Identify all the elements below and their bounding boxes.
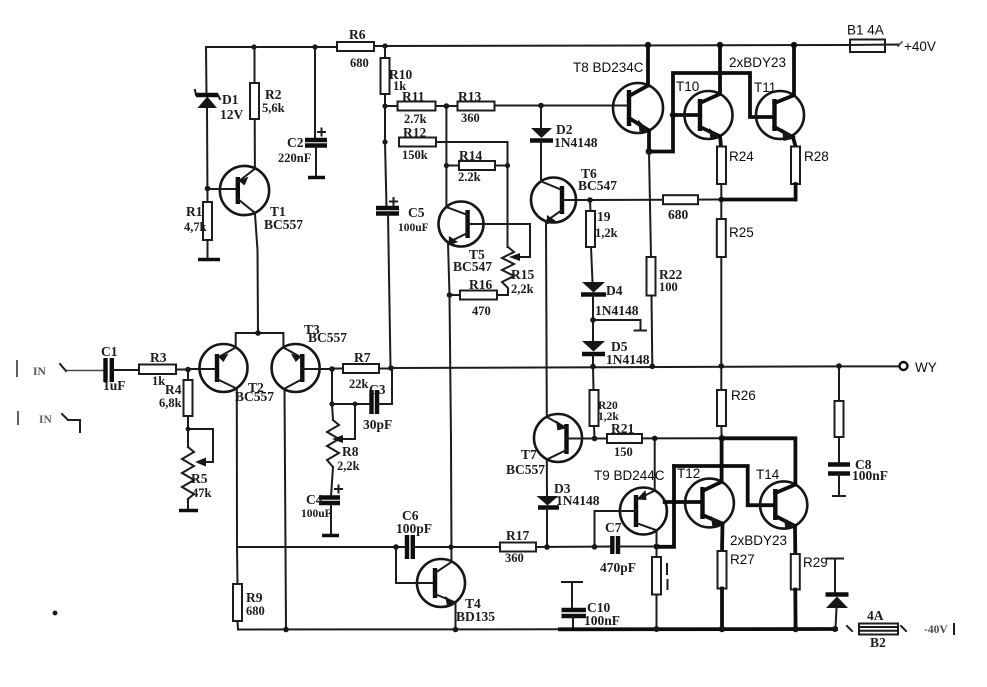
svg-text:1N4148: 1N4148 xyxy=(595,303,639,318)
wire +40V top rail right segment xyxy=(374,45,845,46)
svg-text:R28: R28 xyxy=(804,149,829,164)
node junction R11 left xyxy=(382,103,387,108)
wire R25 to output rail xyxy=(720,257,722,366)
node IN lower terminal tick xyxy=(17,412,19,424)
wire T3 collector down to bottom rail xyxy=(285,389,287,630)
wire R17 to C7 xyxy=(536,546,612,549)
wire base column down to output node xyxy=(657,466,675,547)
node junction D2 top xyxy=(538,103,544,109)
svg-text:C7: C7 xyxy=(605,520,622,535)
wire R24 to R25 xyxy=(720,184,722,219)
svg-text:R24: R24 xyxy=(729,149,754,164)
wire input to C1 xyxy=(66,370,105,372)
resistor R24 xyxy=(717,147,726,185)
transistor T12 2xBDY23 xyxy=(685,479,734,528)
svg-text:1,2k: 1,2k xyxy=(595,226,618,240)
transistor T7 BC557 xyxy=(506,414,582,477)
resistor R8 2,2k trimmer xyxy=(327,420,360,473)
wire lower horizontal line T2-collector to C6 xyxy=(237,546,407,548)
ground under C4 xyxy=(322,534,339,537)
wire T9 to T12 base link xyxy=(665,500,703,504)
node junction R3/R4/T2 xyxy=(185,367,191,373)
wire C2 to ground xyxy=(315,146,317,177)
svg-text:T11: T11 xyxy=(754,80,776,95)
node junction 680/R24/R25 xyxy=(718,197,724,203)
svg-text:BC547: BC547 xyxy=(453,259,492,274)
node junction D5/R20 on rail xyxy=(590,364,596,370)
node junction R14 left xyxy=(444,163,449,168)
node junction T1 base tap xyxy=(205,186,211,192)
wire node to R4 xyxy=(187,370,189,381)
wire T1 collector to diff pair tail xyxy=(255,213,258,333)
wire R12 right to R15 column xyxy=(436,142,508,247)
svg-text:B2: B2 xyxy=(870,635,886,650)
svg-text:BC557: BC557 xyxy=(235,389,274,404)
svg-text:R9: R9 xyxy=(246,590,263,605)
wire bottom rail right thick xyxy=(560,627,836,631)
resistor unlabeled above bottom rail xyxy=(652,547,668,629)
wire T4 emitter to bottom rail xyxy=(455,603,457,630)
resistor R28 xyxy=(791,147,800,185)
node junction R21/R26/T12/T14 xyxy=(719,435,725,441)
resistor R22 100 xyxy=(647,257,683,296)
svg-text:360: 360 xyxy=(505,551,524,565)
wire R13 to T8 base xyxy=(495,105,630,107)
node junction D3 bottom xyxy=(544,544,550,550)
transistor T8 BD234C xyxy=(613,83,663,133)
wire R5 wiper loop xyxy=(188,429,213,462)
node junction T9 collector/C7 line xyxy=(654,544,660,550)
svg-text:IN: IN xyxy=(33,366,46,378)
svg-text:470: 470 xyxy=(472,304,491,318)
svg-text:C5: C5 xyxy=(408,205,425,220)
svg-text:R25: R25 xyxy=(729,225,754,240)
svg-text:R17: R17 xyxy=(506,528,529,543)
transistor T6 BC547 xyxy=(531,166,617,225)
transistor T1 BC557 xyxy=(220,166,303,232)
wire T14 base path xyxy=(674,466,775,505)
resistor R5 47k trimmer xyxy=(182,447,212,500)
transistor T2 BC557 xyxy=(200,344,275,404)
node junction C3 left xyxy=(329,401,334,406)
svg-text:T7: T7 xyxy=(521,447,537,462)
node junction R29/bottom rail xyxy=(792,626,798,632)
wire C1 to R3 xyxy=(112,369,139,371)
svg-text:12V: 12V xyxy=(220,107,244,122)
wire C3 right lead up to R7 right node xyxy=(377,369,392,405)
transistor T14 2xBDY23 xyxy=(760,481,807,530)
wire T9 collector xyxy=(656,530,658,546)
svg-text:360: 360 xyxy=(461,111,480,125)
wire D5 to output rail xyxy=(592,355,594,367)
node junction T3 base/R7/C3 xyxy=(329,366,335,372)
node junction R22 bottom on rail xyxy=(650,364,656,370)
capacitor C6 100pF xyxy=(396,508,432,559)
svg-text:30pF: 30pF xyxy=(363,417,392,432)
svg-text:1uF: 1uF xyxy=(103,378,126,393)
svg-text:R16: R16 xyxy=(469,277,492,292)
node junction T9 emitter tap xyxy=(652,436,658,442)
resistor R10 1k xyxy=(381,58,413,94)
svg-text:R3: R3 xyxy=(150,350,167,365)
svg-text:R14: R14 xyxy=(459,148,482,163)
resistor R13 360 xyxy=(458,89,495,125)
svg-text:T12: T12 xyxy=(677,466,700,481)
wire R1 to ground xyxy=(207,240,209,259)
node junction T4 emitter/bottom rail xyxy=(453,627,459,633)
node junction T11 collector/rail xyxy=(791,42,797,48)
resistor R11 2.7k xyxy=(385,89,436,126)
capacitor C4 100uF xyxy=(301,486,342,521)
wire T5 emitter down to T4 collector xyxy=(448,243,452,563)
svg-text:WY: WY xyxy=(915,360,937,375)
wire bottom rail left xyxy=(238,628,560,630)
typed labels group xyxy=(573,23,937,571)
node junction C2/rail xyxy=(312,44,317,49)
node junction T9 base tap xyxy=(592,544,598,550)
wire R29 to bottom rail xyxy=(793,590,797,630)
node junction between D4 and D5 xyxy=(590,317,596,323)
wire C5 column top xyxy=(385,142,387,207)
wire T12 collector from node xyxy=(720,438,724,482)
node IN terminal tick xyxy=(16,361,18,376)
svg-text:680: 680 xyxy=(246,604,265,618)
wire R28 bottom link xyxy=(721,198,795,202)
resistor R6 xyxy=(337,27,374,70)
wire T14 emitter to R29 xyxy=(793,526,797,554)
node +40V tick xyxy=(898,42,902,46)
svg-text:R6: R6 xyxy=(349,27,366,42)
node junction R27/bottom rail xyxy=(719,626,725,632)
resistor R15 2,2k trimmer xyxy=(502,247,534,296)
node junction T8 collector/rail xyxy=(645,42,651,48)
wire T1 base xyxy=(208,188,238,190)
wire R5 to ground xyxy=(187,499,189,510)
wire R2 to T1 emitter xyxy=(254,119,256,169)
node junction R8 wiper tap xyxy=(353,402,358,407)
wire rail to R10 xyxy=(384,46,386,58)
node junction T4 collector line crossing xyxy=(448,544,453,549)
resistor 680 bias xyxy=(663,195,721,222)
svg-text:R2: R2 xyxy=(265,87,282,102)
node junction R10/rail xyxy=(382,43,387,48)
ground under R1 xyxy=(198,258,220,261)
capacitor C10 100nF xyxy=(562,582,621,630)
wire C3 left lead xyxy=(332,403,371,405)
svg-text:+40V: +40V xyxy=(904,39,936,54)
wire R22 column xyxy=(649,152,651,257)
capacitor C3 30pF xyxy=(363,382,392,432)
svg-text:C1: C1 xyxy=(101,344,118,359)
wire T6 base line through 680 xyxy=(590,199,663,201)
node junction R12 left xyxy=(382,139,387,144)
svg-text:470pF: 470pF xyxy=(600,560,636,575)
node junction C6/T4 base xyxy=(393,544,399,550)
svg-text:C3: C3 xyxy=(369,382,386,397)
node junction R14 right xyxy=(505,163,510,168)
node junction resistor/bottom rail xyxy=(654,626,660,632)
wire input jack tick xyxy=(60,364,66,371)
wire R19 to D4 xyxy=(591,247,593,282)
svg-text:BC557: BC557 xyxy=(308,330,347,345)
transistor T3 BC557 xyxy=(272,322,348,392)
wire C4 to ground xyxy=(330,504,332,536)
svg-text:B1 4A: B1 4A xyxy=(847,23,884,38)
transistor T4 BD135 xyxy=(417,559,495,624)
node junction C8 on rail xyxy=(836,363,842,369)
node bias stub end bar xyxy=(635,330,647,332)
wire +40V top rail left segment xyxy=(206,46,337,48)
transistor T9 BD244C xyxy=(620,488,667,535)
svg-text:6,8k: 6,8k xyxy=(159,396,182,410)
capacitor C2 220nF xyxy=(278,129,327,166)
svg-text:1k: 1k xyxy=(152,374,165,388)
wire T8 emitter to node xyxy=(647,131,651,153)
node junction T10 collector/rail xyxy=(717,42,723,48)
wire R21 right to output devices node xyxy=(642,437,722,439)
svg-text:D1: D1 xyxy=(222,92,239,107)
svg-text:T10: T10 xyxy=(676,79,699,94)
svg-text:2,2k: 2,2k xyxy=(337,459,360,473)
svg-text:2.2k: 2.2k xyxy=(458,170,481,184)
wire rail to R2 xyxy=(254,47,256,83)
wire T14 collector branch xyxy=(722,438,796,484)
svg-text:100nF: 100nF xyxy=(584,613,620,628)
svg-text:R21: R21 xyxy=(611,421,634,436)
wire R7 node down to C3 loop xyxy=(331,369,333,404)
capacitor C8 100nF xyxy=(828,457,888,496)
wire T7 base to R21 xyxy=(567,438,608,440)
svg-text:R7: R7 xyxy=(354,350,371,365)
diode protection at -40V xyxy=(826,559,849,630)
resistor R4 6,8k xyxy=(159,380,193,416)
transistor T11 2xBDY23 xyxy=(756,45,804,141)
wire R8 wiper connection xyxy=(343,404,355,439)
wire T2 collector down xyxy=(236,389,239,584)
svg-text:R15: R15 xyxy=(511,267,534,282)
wire T5 base hook to R15 wiper xyxy=(468,224,530,257)
capacitor C7 470pF xyxy=(600,520,636,575)
node -40V tick xyxy=(953,624,955,634)
diode D5 1N4148 xyxy=(582,339,650,367)
svg-text:BC547: BC547 xyxy=(578,178,617,193)
wire C7 right to T9 collector node xyxy=(618,546,674,548)
node junction R20 bottom/T7 base xyxy=(592,436,598,442)
ground under R5 xyxy=(179,509,198,512)
node junction R26 top on rail xyxy=(719,363,725,369)
svg-text:4,7k: 4,7k xyxy=(184,220,207,234)
wire R9 to bottom rail corner xyxy=(237,621,240,630)
svg-text:R11: R11 xyxy=(402,89,425,104)
wire D4 to D5 xyxy=(592,295,594,341)
svg-text:R26: R26 xyxy=(731,388,756,403)
node junction R19 top xyxy=(587,197,593,203)
fuse B1 4A xyxy=(845,40,898,53)
node junction R2/rail xyxy=(251,44,256,49)
node junction T12 base column xyxy=(671,499,677,505)
resistor R16 470 xyxy=(450,277,509,318)
svg-text:BC557: BC557 xyxy=(264,217,303,232)
svg-text:100uF: 100uF xyxy=(398,222,429,234)
transistor T5 BC547 xyxy=(439,202,493,275)
wire T6 base to bias network xyxy=(562,199,590,201)
wire T9 emitter tap xyxy=(654,438,656,490)
svg-text:R12: R12 xyxy=(403,125,426,140)
svg-text:R27: R27 xyxy=(730,552,755,567)
svg-text:R13: R13 xyxy=(458,89,481,104)
wire T2 base xyxy=(188,368,217,370)
resistor R21 150 xyxy=(607,421,642,459)
svg-text:R4: R4 xyxy=(165,382,182,397)
wire R3 to T2 base node xyxy=(176,369,188,371)
svg-text:150k: 150k xyxy=(402,148,428,162)
wire T10 base xyxy=(673,113,700,117)
wire driver node L-path to T10/T11 bases xyxy=(649,73,775,152)
wire R26 xyxy=(717,366,726,438)
resistor R19 1,2k xyxy=(586,200,618,247)
svg-text:C2: C2 xyxy=(287,135,304,150)
svg-text:1N4148: 1N4148 xyxy=(554,135,598,150)
wire T9 base xyxy=(595,511,637,547)
svg-text:R1: R1 xyxy=(186,204,203,219)
wire R11 right lead xyxy=(436,105,458,107)
svg-text:2xBDY23: 2xBDY23 xyxy=(729,55,786,70)
resistor R7 22k xyxy=(332,350,391,391)
node junction T8 emitter xyxy=(646,148,653,155)
svg-text:2xBDY23: 2xBDY23 xyxy=(730,533,787,548)
resistor R3 1k xyxy=(139,350,176,388)
resistor R12 150k xyxy=(399,125,436,162)
wire left column from rail to D1 xyxy=(205,47,208,95)
node junction diode/bottom rail xyxy=(832,626,838,632)
svg-text:100pF: 100pF xyxy=(396,521,432,536)
svg-text:19: 19 xyxy=(597,209,611,224)
svg-text:1N4148: 1N4148 xyxy=(556,493,600,508)
diode D1 zener 12V xyxy=(195,90,244,122)
svg-text:100nF: 100nF xyxy=(852,468,888,483)
node junction R4/R5 xyxy=(186,427,191,432)
svg-text:47k: 47k xyxy=(192,486,212,500)
wire T11 emitter to R28 xyxy=(793,137,796,146)
wire T8 collector from rail xyxy=(646,45,650,86)
resistor R25 xyxy=(717,219,726,257)
svg-text:150: 150 xyxy=(614,445,633,459)
svg-text:R5: R5 xyxy=(191,471,208,486)
wire T7 collector to D3 xyxy=(546,460,548,497)
resistor R14 2.2k xyxy=(446,148,507,184)
svg-text:T9 BD244C: T9 BD244C xyxy=(594,468,665,483)
capacitor C5 100uF xyxy=(376,198,429,234)
svg-text:4A: 4A xyxy=(867,608,884,623)
wire R27 to bottom rail xyxy=(720,589,724,630)
wire C6 to R17 xyxy=(413,546,500,548)
wire C3 node to R8 xyxy=(332,404,333,420)
wire lower input stub xyxy=(62,414,80,432)
node junction R16 left on T5 emitter column xyxy=(447,292,453,298)
svg-text:22k: 22k xyxy=(349,377,369,391)
svg-text:BC557: BC557 xyxy=(506,462,545,477)
svg-text:R29: R29 xyxy=(803,555,828,570)
wire T12 emitter to R27 xyxy=(720,524,724,551)
wire R22 to output rail xyxy=(651,296,654,367)
wire R10 to R11/R12 column xyxy=(384,94,386,142)
svg-text:T8 BD234C: T8 BD234C xyxy=(573,60,644,75)
svg-text:IN: IN xyxy=(39,414,52,426)
ground under C2 xyxy=(308,176,325,179)
node WY output terminal xyxy=(900,362,908,370)
resistor R1 4,7k xyxy=(184,202,212,240)
fuse B2 4A xyxy=(847,608,906,650)
diode D4 1N4148 xyxy=(581,282,639,318)
diode D3 1N4148 xyxy=(537,481,600,508)
svg-text:2.7k: 2.7k xyxy=(404,112,427,126)
svg-text:100: 100 xyxy=(659,280,678,294)
svg-text:220nF: 220nF xyxy=(278,151,312,165)
wire D3 to R17 line xyxy=(546,508,548,547)
wire T6 emitter down to T7 xyxy=(545,221,548,417)
wire T10 emitter to R24 xyxy=(720,136,721,146)
resistor series with C8 xyxy=(835,366,844,464)
wire T3 base to R7 node xyxy=(302,368,332,370)
node junction R7 right/C5 xyxy=(388,365,394,371)
node junction T10 base tap xyxy=(670,112,676,118)
svg-text:1N4148: 1N4148 xyxy=(606,352,650,367)
svg-text:2,2k: 2,2k xyxy=(511,282,534,296)
wire bias stub right of D4/D5 xyxy=(593,320,641,330)
svg-text:680: 680 xyxy=(350,56,369,70)
svg-text:-40V: -40V xyxy=(924,624,948,636)
svg-text:100uF: 100uF xyxy=(301,508,332,520)
svg-text:D4: D4 xyxy=(606,283,623,298)
wire WY output rail xyxy=(391,366,840,368)
node junction R11/R13/T5 column xyxy=(444,103,450,109)
wire C5 to R7 right node xyxy=(388,214,391,367)
resistor R29 xyxy=(791,554,800,590)
resistor R17 360 xyxy=(500,528,536,565)
wire R28 to node xyxy=(794,184,798,200)
resistor R9 680 xyxy=(233,584,265,621)
wire T4 base xyxy=(396,547,435,583)
diode D2 1N4148 xyxy=(530,106,598,151)
resistor R2 5,6k xyxy=(250,83,285,119)
capacitor C1 1uF xyxy=(101,344,126,393)
wire diff pair emitter tail xyxy=(236,333,284,348)
wire D1 to R1 xyxy=(206,109,209,202)
node junction T3 collector/bottom rail xyxy=(283,627,289,633)
wire D2 to T6 collector xyxy=(540,141,542,181)
transistor T10 2xBDY23 xyxy=(685,45,733,140)
svg-text:680: 680 xyxy=(668,207,689,222)
svg-text:R8: R8 xyxy=(342,444,359,459)
wire T5 collector column xyxy=(445,106,447,207)
wire R4 to R5 xyxy=(187,416,189,447)
wire rail to C2 xyxy=(314,47,316,139)
wire R8 to C4 xyxy=(331,467,333,497)
node stray dot bottom left xyxy=(53,611,58,616)
resistor R20 1,2k xyxy=(590,367,620,439)
svg-text:C4: C4 xyxy=(306,492,323,507)
svg-text:BD135: BD135 xyxy=(456,609,495,624)
svg-text:T14: T14 xyxy=(756,467,780,482)
svg-text:5,6k: 5,6k xyxy=(262,101,285,115)
resistor R27 xyxy=(718,551,727,589)
